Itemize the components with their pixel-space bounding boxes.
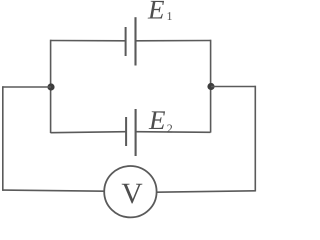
wire: inner loop right vertical <box>210 40 212 133</box>
wire: inner loop bottom-right segment from E2 <box>136 131 211 134</box>
wire: bottom-right horizontal from voltmeter <box>157 191 256 192</box>
svg-text:V: V <box>121 178 142 210</box>
wire: bottom-left horizontal to voltmeter <box>3 190 105 191</box>
wire: inner loop top-left segment to E1 <box>51 40 126 42</box>
svg-text:E: E <box>147 0 165 25</box>
wire: inner loop left vertical <box>50 40 52 133</box>
wire: right branch horizontal from right dot <box>211 86 255 88</box>
node: right junction dot <box>207 83 214 90</box>
battery E2 <box>126 109 136 156</box>
svg-text:1: 1 <box>167 9 173 23</box>
wire: right outer vertical <box>254 86 256 192</box>
svg-text:2: 2 <box>167 122 173 136</box>
node: left junction dot <box>47 83 54 90</box>
wire: left outer vertical <box>2 86 4 191</box>
battery E1 <box>126 17 136 65</box>
svg-text:E: E <box>148 105 166 135</box>
wire: inner loop bottom-left segment to E2 <box>51 132 127 133</box>
voltmeter U1 circle <box>104 166 156 217</box>
wire: inner loop top-right segment from E1 <box>136 40 211 42</box>
wire: left branch horizontal from left dot <box>3 86 51 88</box>
